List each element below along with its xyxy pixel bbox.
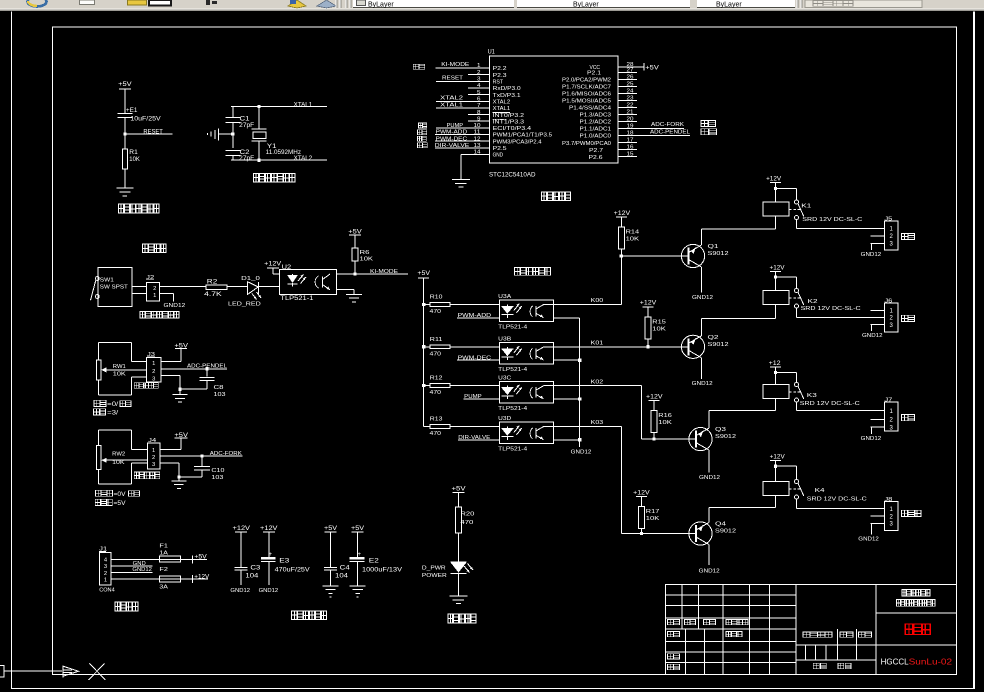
svg-text:+E1: +E1 [126,108,138,114]
svg-text:INT0/P3.2: INT0/P3.2 [493,113,524,119]
svg-text:TLP521-1: TLP521-1 [280,296,314,302]
svg-text:P2.1: P2.1 [587,71,601,77]
svg-text:GND12: GND12 [164,303,186,309]
wire C1 to mid rail [232,122,233,134]
annotation hanzi (pin1) [413,64,424,69]
U1 plain left pin stubs [468,74,489,122]
svg-text:GND12: GND12 [132,567,152,573]
svg-text:+5V: +5V [417,271,430,277]
svg-text:F1: F1 [159,544,168,550]
svg-text:GND12: GND12 [858,537,879,543]
svg-text:GND12: GND12 [692,381,713,387]
caption J3 function [134,383,158,389]
caption J3 note line1 [94,400,131,408]
svg-text:RW1: RW1 [113,364,126,370]
capacitor C2 [226,150,255,162]
svg-text:J5: J5 [884,217,892,223]
caption power filter [292,611,327,620]
svg-text:3: 3 [152,462,155,468]
svg-text:+5V: +5V [645,65,659,71]
svg-text:P1.0/ADC0: P1.0/ADC0 [580,134,612,140]
svg-text:U3D: U3D [498,416,511,422]
svg-text:TLP521-4: TLP521-4 [498,325,528,331]
wire +12V to E3 [268,536,269,557]
ground (reset) [116,188,133,197]
svg-text:S9012: S9012 [715,434,736,440]
wire J2 pin1 to GND12 [159,293,174,301]
wire Y1 bottom [258,141,259,160]
svg-text:Q2: Q2 [708,335,719,341]
wire R16 to base node [654,433,655,440]
net label GND12 (Q1) [692,295,713,301]
net label KI-MODE (U1 pin1) [436,62,489,68]
annotation hanzi (pin12) [418,136,427,141]
svg-text:GND: GND [133,561,146,567]
wire cap C10 [201,456,202,466]
svg-text:TLP521-4: TLP521-4 [498,367,528,373]
net label PWM-ADD (opto) [457,313,499,319]
wire U3A emitter to rail [554,317,580,318]
wire J4 pin3 to gnd [160,463,180,477]
svg-text:+5V: +5V [118,82,132,88]
svg-text:R16: R16 [658,413,672,419]
svg-text:10K: 10K [112,460,125,466]
svg-text:S9012: S9012 [715,529,736,535]
wire J3 pin1 to +5V [161,353,182,362]
net label PUMP (opto) [464,394,500,400]
svg-text:+12V: +12V [614,211,631,217]
potentiometer RW1 [96,360,146,380]
net label K03 [591,420,604,426]
connector J1 [99,547,115,594]
wire opto +5V rail [423,278,424,427]
toolbar icon fragments [28,0,337,8]
wire J1 pin3 GND [111,561,152,567]
node RESET junction [123,133,126,136]
svg-text:GND12: GND12 [692,295,713,301]
svg-text:SunLu-02: SunLu-02 [909,657,953,666]
wire emitter Q2 [701,318,776,336]
wire gnd rail [219,134,233,135]
svg-text:P2.0/PCA2/PWM2: P2.0/PCA2/PWM2 [562,78,611,84]
wire SW1 to J2 pin1 [132,293,146,294]
net label GND12 (E3) [259,588,279,594]
svg-text:SRD 12V DC-SL-C: SRD 12V DC-SL-C [807,496,867,502]
capacitor C8 [200,377,226,398]
U1 plain right pin stubs [618,72,637,157]
wire +5V to R20 [458,497,459,507]
wire rail to R11 [424,346,431,347]
svg-text:3: 3 [104,564,107,570]
net label PWM-ADD (U1 pin11) [435,130,489,136]
svg-text:Q4: Q4 [715,522,727,528]
svg-text:E2: E2 [369,558,380,564]
resistor R6 [352,248,373,262]
svg-text:SRD 12V DC-SL-C: SRD 12V DC-SL-C [801,306,861,312]
wire +5V to E2 [357,536,358,557]
svg-text:4.7K: 4.7K [204,292,222,298]
svg-text:+: + [268,551,272,558]
svg-text:R15: R15 [652,319,666,325]
wire gnd stub J4 [178,477,179,481]
svg-text:LED_RED: LED_RED [228,301,261,307]
svg-text:XTAL2: XTAL2 [294,156,313,162]
title block middle labels [803,632,872,669]
caption J4 function [134,472,160,479]
net label K01 [591,341,604,347]
power +12V (R17) [633,490,650,500]
wire +12V to U2 pin1 [272,268,279,274]
svg-text:GND12: GND12 [861,252,882,258]
svg-text:K4: K4 [815,488,826,494]
svg-text:2: 2 [152,455,155,461]
svg-text:GND12: GND12 [259,588,279,594]
svg-text:TLP521-4: TLP521-4 [498,447,528,453]
svg-text:3A: 3A [159,584,168,590]
svg-text:1: 1 [153,293,156,299]
caption opto isolation [515,268,551,276]
wire J5 pin3 to GND12 [871,244,872,250]
svg-text:ADC-FORK: ADC-FORK [651,122,684,128]
svg-text:INT1/P3.3: INT1/P3.3 [493,119,524,125]
wire collector Q4 [709,545,710,566]
wire E3 to GND12 [268,562,269,585]
ground (U1 GND pin) [452,179,470,188]
wire K1 contact to J5 [796,220,885,229]
svg-text:+5V: +5V [452,486,466,492]
svg-text:P2.2: P2.2 [493,66,507,72]
fuse F2 [159,567,180,591]
wire K2 contact to J6 [796,308,885,318]
svg-text:RST: RST [493,80,504,86]
svg-text:103: 103 [214,392,226,398]
wire R6 to KI-MODE node [355,261,356,274]
resistor R20 [456,507,475,533]
node rail U3C [578,397,581,400]
resistor R14 [618,227,640,249]
power +12V (E3) [260,526,278,536]
svg-text:C8: C8 [214,385,224,391]
wire J3 loop top [98,342,146,362]
svg-text:R6: R6 [360,250,370,256]
svg-text:D1_0: D1_0 [241,276,260,282]
net label XTAL1 (crystal) [294,102,313,108]
svg-text:+5V: +5V [351,526,364,532]
relay K3 coil [763,385,789,399]
node KI-MODE junction [353,272,356,275]
svg-text:C10: C10 [211,468,224,474]
svg-text:ByLayer: ByLayer [716,2,742,9]
wire K4 coil to emitter [775,496,776,508]
svg-text:470: 470 [430,309,442,315]
svg-text:CON4: CON4 [99,587,115,593]
svg-text:+12V: +12V [633,490,650,496]
annotation hanzi (pin18) [701,129,717,135]
svg-text:+5V: +5V [348,230,362,236]
svg-text:SW SPST: SW SPST [100,285,129,291]
svg-text:R1: R1 [129,150,138,156]
node C1-C2-gnd [231,133,234,136]
node rail U3D [578,438,581,441]
svg-text:GND12: GND12 [699,569,720,575]
op-amp U1 (MCU STC12C5410AD) box [488,50,618,163]
wire LED to ground [458,573,459,596]
svg-text:27pF: 27pF [239,123,254,129]
power +5V (C4) [324,526,337,536]
wire emitter Q1 [701,229,776,246]
connector J5 [871,217,899,251]
ground (J4) [171,480,186,489]
svg-text:P1.7/SCLK/ADC7: P1.7/SCLK/ADC7 [562,85,611,91]
wire +12V to R17 [641,501,642,507]
capacitor C3 [234,565,261,579]
svg-text:1000uF/13V: 1000uF/13V [362,568,402,574]
svg-text:S9012: S9012 [708,251,729,257]
opto-coupler U3D TLP521-4 [498,416,554,452]
wire C10 to gnd rail [179,470,203,478]
wire U2 out KI-MODE [337,274,408,275]
svg-text:C1: C1 [240,117,251,123]
node base Q3 [652,438,655,441]
wire K03 [554,426,697,534]
label K1 type [802,217,862,223]
capacitor C4 [324,565,350,579]
svg-text:P1.5/MOSI/ADC5: P1.5/MOSI/ADC5 [562,99,611,105]
annotation hanzi (pin11) [418,130,427,135]
wire R12 to U3C [450,385,499,386]
net label ADC-FORK (U1 pin19) [618,122,684,129]
wire K01 [554,346,689,347]
svg-text:470: 470 [430,431,442,437]
net label GND12 (opto rail) [571,450,592,456]
toolbar background [0,0,984,11]
resistor R16 [651,411,672,433]
svg-text:XTAL1: XTAL1 [294,102,313,108]
caption J5 load [902,233,915,239]
wire J1 pin1 to F2 [111,579,159,580]
wire R1 to ground [124,169,125,188]
power +12V (C3) [233,526,251,536]
capacitor E2 [350,551,402,574]
wire rail to C1 [232,107,233,118]
svg-text:10K: 10K [360,256,374,262]
svg-text:SRD 12V DC-SL-C: SRD 12V DC-SL-C [800,401,860,407]
annotation hanzi (pin13) [418,143,428,148]
svg-text:STC12C5410AD: STC12C5410AD [489,172,536,178]
caption J6 load [902,315,915,321]
svg-text:SRD 12V DC-SL-C: SRD 12V DC-SL-C [802,217,862,223]
svg-text:P1.3/ADC3: P1.3/ADC3 [580,113,612,119]
svg-text:+12V: +12V [264,262,281,268]
relay K3 contact [789,383,817,403]
svg-text:1: 1 [152,448,155,454]
wire U1 pin14 to ground [461,154,490,180]
U1 part number [489,172,536,178]
svg-text:10K: 10K [113,371,126,377]
svg-text:GND12: GND12 [861,436,882,442]
svg-text:10K: 10K [129,157,140,163]
transistor Q4 [682,522,736,546]
svg-text:K3: K3 [807,393,817,399]
svg-text:R20: R20 [460,511,474,517]
svg-text:P2.3: P2.3 [493,73,507,79]
capacitor E1 [117,108,160,122]
power +5V (J3) [174,343,188,352]
node XTAL1-Y1 [257,105,260,108]
wire +12V to K2 contact [776,277,798,289]
node K2 +12V [774,275,777,278]
ground (power LED) [450,596,468,605]
wire F1 to +5V [180,555,207,564]
svg-text:+12V: +12V [233,526,251,532]
wire +12V to K1 coil [775,183,776,202]
net label DIR-VALVE (U1 pin13) [435,143,489,149]
node K1 +12V [774,187,777,190]
svg-text:P1.4/SS/ADC4: P1.4/SS/ADC4 [569,106,611,112]
svg-text:K00: K00 [591,298,604,304]
resistor R13 [430,416,451,437]
svg-text:104: 104 [335,573,349,579]
label K4 type [807,496,867,502]
svg-text:+12V: +12V [766,177,781,183]
svg-text:10K: 10K [652,326,666,332]
caption power LED [448,614,476,623]
net label PWM-DEC (opto) [457,355,499,361]
wire J1 pin2 GND12 [111,567,152,573]
wire Y1 top [258,107,259,129]
label K3 type [800,401,860,407]
wire J3 pin3 to gnd [161,375,180,389]
node base Q2 [646,345,649,348]
capacitor E3 [261,551,310,574]
relay K4 contact [789,480,826,500]
wire emitter Q4 [709,507,776,523]
net label XTAL1 (U1 pin7) [436,102,489,108]
annotation hanzi (pin19) [701,121,716,127]
net label ADC-FORK (J4) [160,451,243,457]
connector J3 [147,352,162,382]
svg-text:R12: R12 [430,376,443,382]
wire J7 pin3 to GND12 [871,427,872,434]
node J4 cap junction [200,454,203,457]
wire K3 coil to emitter [775,399,776,411]
svg-text:+12V: +12V [194,574,209,580]
svg-text:+12V: +12V [646,394,663,400]
wire rail to R10 [424,304,431,305]
diode D_PWR LED [422,562,473,579]
wire +12V to K2 coil [775,271,776,290]
wire +12V to R16 [654,405,655,411]
caption crystal circuit [254,173,295,182]
power +12V (R14) [614,211,631,221]
svg-text:2: 2 [153,286,156,292]
wire collector Q2 [701,358,702,379]
wire J4 loop top [98,430,147,450]
power +5V (opto rail) [417,271,430,282]
svg-text:R13: R13 [430,416,443,422]
wire J2 pin2 to R2 [159,286,206,287]
wire R10 to U3A [450,304,499,305]
wire K2 coil to emitter [775,305,776,319]
svg-text:GND12: GND12 [230,588,250,594]
svg-text:P1.2/ADC2: P1.2/ADC2 [580,120,612,126]
wire emitter Q3 [709,410,776,428]
wire XTAL1 rail [231,106,327,107]
relay K1 contact [789,200,811,220]
potentiometer RW2 [96,446,147,470]
svg-text:+5V: +5V [324,526,337,532]
svg-text:P1.6/MISO/ADC6: P1.6/MISO/ADC6 [562,92,611,98]
power +12V (K3) [769,361,782,371]
svg-text:470: 470 [430,390,442,396]
svg-text:PWM3/PCA3/P2.4: PWM3/PCA3/P2.4 [493,139,542,145]
title block drawing name [905,624,930,634]
wire R20 to LED [458,533,459,562]
net label DIR-VALVE (opto) [458,435,500,441]
svg-text:1: 1 [152,361,155,367]
power +12V (R16) [646,394,663,404]
svg-text:C4: C4 [340,565,351,571]
power +12V (K4) [770,455,785,465]
wire +12V to K4 contact [776,466,798,480]
resistor R12 [430,376,451,397]
caption MCU circuit [542,192,571,200]
title block company name [897,590,936,607]
caption reset circuit [119,204,160,213]
svg-text:RW2: RW2 [112,452,125,458]
svg-text:R10: R10 [430,294,443,300]
ground (J3) [173,394,188,403]
svg-text:+12V: +12V [640,301,657,307]
svg-text:U1: U1 [488,50,496,56]
power +5V (J4) [174,433,188,442]
resistor R15 [645,317,666,339]
svg-text:U3C: U3C [498,375,511,381]
wire E2 to ground [357,562,358,586]
node J3 cap junction [206,367,209,370]
node base Q1 [620,254,623,257]
connector J6 [871,299,899,333]
caption J4 note line1 [96,490,140,498]
svg-text:R11: R11 [430,337,443,343]
svg-text:R2: R2 [207,279,218,285]
wire J6 pin3 to GND12 [871,325,872,331]
svg-text:ECI/T0/P3.4: ECI/T0/P3.4 [493,126,531,132]
power +5V (reset) [118,82,132,93]
U1 pin numbers and pin names [474,62,634,161]
svg-text:D_PWR: D_PWR [422,565,446,571]
wire C4 to ground [330,570,331,586]
wire +5V to E1 [124,93,125,114]
svg-text:ByLayer: ByLayer [573,2,599,9]
svg-text:P1.1/ADC1: P1.1/ADC1 [580,127,612,133]
wire J3 loop bottom [98,377,146,396]
wire U3D emitter to rail [554,439,580,440]
capacitor C1 [226,117,255,130]
net label GND12 (C3) [230,588,250,594]
wire E1 to node RESET [124,118,125,135]
svg-text:Q3: Q3 [715,427,726,433]
svg-text:SW1: SW1 [100,277,114,283]
wire +5V to R6 [355,239,356,248]
svg-text:10uF/25V: 10uF/25V [130,116,160,122]
caption J4 note line2 [95,499,125,507]
net label PUMP (U1 pin10) [436,123,489,129]
svg-text:10K: 10K [646,516,660,522]
power +12V (K2) [770,265,785,275]
net label XTAL2 (U1 pin6) [436,96,489,102]
wire C3 to GND12 [240,570,241,585]
